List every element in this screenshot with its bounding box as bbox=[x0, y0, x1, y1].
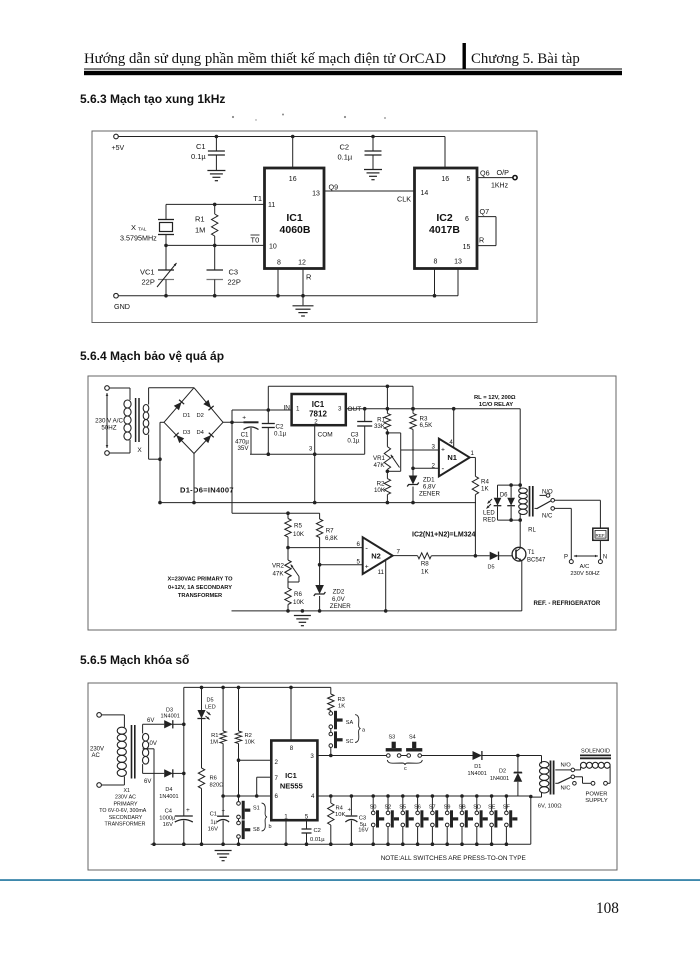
svg-text:3: 3 bbox=[338, 405, 342, 412]
svg-text:X: X bbox=[137, 447, 142, 454]
svg-text:+: + bbox=[242, 415, 246, 422]
svg-text:6: 6 bbox=[465, 216, 469, 223]
svg-text:S1: S1 bbox=[253, 806, 260, 812]
svg-text:15: 15 bbox=[463, 244, 471, 251]
svg-text:1N4001: 1N4001 bbox=[468, 771, 487, 777]
svg-text:N/O: N/O bbox=[561, 763, 572, 769]
svg-text:1M: 1M bbox=[210, 740, 218, 746]
svg-text:D2: D2 bbox=[197, 413, 204, 419]
svg-text:C1: C1 bbox=[196, 142, 206, 151]
svg-text:+5V: +5V bbox=[112, 145, 125, 152]
svg-text:VR2: VR2 bbox=[272, 563, 285, 570]
svg-text:16V: 16V bbox=[208, 826, 218, 832]
svg-text:R5: R5 bbox=[294, 523, 302, 530]
svg-text:REF.: REF. bbox=[596, 533, 606, 538]
svg-text:RL = 12V, 200Ω: RL = 12V, 200Ω bbox=[474, 395, 516, 401]
svg-text:-: - bbox=[442, 464, 445, 473]
svg-text:+: + bbox=[186, 807, 190, 814]
svg-text:D3: D3 bbox=[166, 707, 173, 713]
svg-text:R4: R4 bbox=[336, 806, 344, 812]
svg-text:16: 16 bbox=[289, 176, 297, 183]
svg-text:D4: D4 bbox=[197, 430, 205, 436]
svg-text:RED: RED bbox=[483, 518, 496, 524]
svg-text:3: 3 bbox=[310, 753, 314, 760]
svg-text:6: 6 bbox=[275, 793, 279, 800]
svg-text:D5: D5 bbox=[488, 565, 495, 571]
svg-text:5.6.3 Mạch tạo xung 1kHz: 5.6.3 Mạch tạo xung 1kHz bbox=[80, 92, 225, 106]
svg-text:6,8V: 6,8V bbox=[423, 484, 437, 491]
svg-text:S6: S6 bbox=[414, 804, 421, 810]
svg-text:0.01µ: 0.01µ bbox=[310, 837, 325, 843]
svg-text:16: 16 bbox=[441, 176, 449, 183]
svg-text:ZD2: ZD2 bbox=[333, 589, 345, 596]
svg-text:OUT: OUT bbox=[348, 406, 362, 413]
svg-text:4017B: 4017B bbox=[429, 224, 460, 236]
svg-text:N: N bbox=[603, 555, 607, 561]
svg-text:C3: C3 bbox=[359, 816, 366, 822]
svg-text:R4: R4 bbox=[481, 479, 489, 486]
svg-text:+: + bbox=[441, 447, 445, 454]
svg-text:C2: C2 bbox=[314, 828, 321, 834]
svg-text:-: - bbox=[365, 544, 368, 553]
svg-text:CLK: CLK bbox=[397, 195, 411, 204]
svg-text:Hướng dẫn sử dụng phần mềm thi: Hướng dẫn sử dụng phần mềm thiết kế mạch… bbox=[84, 51, 446, 67]
svg-text:PRIMARY: PRIMARY bbox=[113, 801, 138, 807]
svg-text:C4: C4 bbox=[165, 809, 173, 815]
svg-text:SB: SB bbox=[459, 804, 467, 810]
svg-text:TO 6V-0-6V, 300mA: TO 6V-0-6V, 300mA bbox=[99, 808, 147, 814]
svg-text:VC1: VC1 bbox=[140, 268, 155, 277]
svg-text:4: 4 bbox=[311, 793, 315, 800]
svg-text:R: R bbox=[306, 273, 312, 282]
svg-text:GND: GND bbox=[114, 302, 130, 311]
svg-text:A/C: A/C bbox=[580, 564, 590, 570]
svg-text:R1: R1 bbox=[195, 215, 205, 224]
svg-text:IC1: IC1 bbox=[312, 400, 325, 409]
svg-text:10K: 10K bbox=[293, 599, 305, 606]
svg-text:R: R bbox=[479, 236, 484, 245]
svg-text:N/C: N/C bbox=[542, 514, 553, 520]
svg-text:6,5K: 6,5K bbox=[420, 422, 434, 429]
svg-text:ZD1: ZD1 bbox=[423, 477, 435, 484]
svg-text:S7: S7 bbox=[429, 804, 436, 810]
svg-text:D5: D5 bbox=[207, 698, 214, 704]
svg-text:6V, 100Ω: 6V, 100Ω bbox=[538, 804, 562, 810]
svg-text:C2: C2 bbox=[276, 424, 284, 431]
svg-text:0+12V, 1A SECONDARY: 0+12V, 1A SECONDARY bbox=[168, 585, 232, 591]
svg-text:1K: 1K bbox=[421, 569, 429, 576]
svg-text:230V: 230V bbox=[90, 747, 104, 753]
svg-text:b: b bbox=[269, 824, 272, 830]
svg-text:POWER: POWER bbox=[586, 792, 608, 798]
svg-text:6V: 6V bbox=[147, 718, 154, 724]
svg-text:13: 13 bbox=[454, 259, 462, 266]
svg-text:2: 2 bbox=[314, 418, 318, 425]
svg-text:C1: C1 bbox=[210, 811, 217, 817]
svg-text:1: 1 bbox=[284, 813, 288, 820]
svg-text:LED: LED bbox=[483, 511, 495, 517]
svg-text:3: 3 bbox=[309, 446, 313, 453]
svg-text:T0: T0 bbox=[251, 236, 260, 245]
svg-text:IN: IN bbox=[284, 405, 291, 412]
svg-text:5: 5 bbox=[357, 559, 361, 566]
svg-text:1N4001: 1N4001 bbox=[161, 713, 180, 719]
svg-text:LED: LED bbox=[205, 705, 216, 711]
svg-text:D1: D1 bbox=[183, 413, 190, 419]
svg-text:IC1: IC1 bbox=[285, 771, 297, 780]
svg-text:47K: 47K bbox=[272, 571, 284, 578]
svg-text:S5: S5 bbox=[399, 804, 406, 810]
svg-text:0.1µ: 0.1µ bbox=[191, 152, 206, 161]
svg-text:1N4001: 1N4001 bbox=[159, 794, 178, 800]
svg-text:10: 10 bbox=[269, 244, 277, 251]
svg-text:10K: 10K bbox=[335, 812, 345, 818]
svg-text:3: 3 bbox=[432, 444, 436, 451]
svg-text:NE555: NE555 bbox=[280, 782, 303, 791]
svg-text:16V: 16V bbox=[163, 822, 173, 828]
svg-text:+: + bbox=[347, 808, 351, 814]
svg-text:7: 7 bbox=[275, 775, 279, 782]
svg-text:ZENER: ZENER bbox=[419, 491, 441, 498]
svg-text:S3: S3 bbox=[389, 735, 396, 741]
svg-text:22P: 22P bbox=[228, 278, 241, 287]
svg-text:13: 13 bbox=[312, 191, 320, 198]
svg-text:7812: 7812 bbox=[309, 410, 327, 419]
svg-text:11: 11 bbox=[268, 202, 275, 209]
svg-text:REF. - REFRIGERATOR: REF. - REFRIGERATOR bbox=[534, 600, 601, 607]
svg-text:TRANSFORMER: TRANSFORMER bbox=[178, 593, 222, 599]
svg-text:X1: X1 bbox=[123, 788, 130, 794]
svg-text:14: 14 bbox=[421, 190, 429, 197]
svg-text:D1-D6=IN4007: D1-D6=IN4007 bbox=[180, 486, 234, 495]
svg-text:N1: N1 bbox=[447, 453, 457, 462]
svg-text:SF: SF bbox=[503, 804, 511, 810]
svg-text:47K: 47K bbox=[373, 462, 385, 469]
svg-text:1KHz: 1KHz bbox=[491, 183, 509, 190]
svg-text:Q9: Q9 bbox=[329, 183, 339, 192]
svg-text:5: 5 bbox=[467, 176, 471, 183]
svg-text:X: X bbox=[131, 223, 136, 232]
svg-text:5.6.5 Mạch khóa số: 5.6.5 Mạch khóa số bbox=[80, 653, 189, 667]
svg-text:S8: S8 bbox=[253, 827, 260, 833]
svg-text:Q6: Q6 bbox=[480, 169, 490, 178]
svg-text:S2: S2 bbox=[385, 804, 392, 810]
svg-text:Chương 5. Bài tàp: Chương 5. Bài tàp bbox=[471, 51, 580, 67]
svg-text:BC547: BC547 bbox=[527, 558, 546, 564]
svg-text:8: 8 bbox=[434, 259, 438, 266]
svg-text:D2: D2 bbox=[499, 769, 506, 775]
svg-text:33K: 33K bbox=[374, 423, 386, 430]
svg-text:1: 1 bbox=[296, 405, 300, 412]
svg-text:SC: SC bbox=[346, 739, 354, 745]
svg-text:108: 108 bbox=[596, 900, 619, 917]
svg-text:230 V A/C: 230 V A/C bbox=[95, 418, 123, 425]
svg-text:3.5795MHz: 3.5795MHz bbox=[120, 234, 157, 243]
svg-text:IC2(N1+N2)=LM324: IC2(N1+N2)=LM324 bbox=[412, 532, 476, 539]
svg-text:TRANSFORMER: TRANSFORMER bbox=[105, 822, 146, 828]
svg-text:O/P: O/P bbox=[497, 168, 510, 177]
svg-text:R6: R6 bbox=[294, 591, 302, 598]
svg-text:1000µ: 1000µ bbox=[159, 816, 176, 822]
svg-text:1K: 1K bbox=[481, 486, 489, 493]
svg-text:4060B: 4060B bbox=[280, 224, 311, 236]
svg-text:TAL: TAL bbox=[138, 227, 147, 233]
svg-text:0.1µ: 0.1µ bbox=[338, 153, 353, 162]
svg-text:NOTE:ALL SWITCHES ARE PRESS-TO: NOTE:ALL SWITCHES ARE PRESS-TO-ON TYPE bbox=[381, 855, 526, 862]
svg-text:6,8K: 6,8K bbox=[325, 535, 339, 542]
svg-text:0V: 0V bbox=[150, 741, 157, 747]
svg-text:R6: R6 bbox=[210, 776, 217, 782]
svg-text:SECONDARY: SECONDARY bbox=[109, 815, 143, 821]
svg-text:230V 50HZ: 230V 50HZ bbox=[570, 571, 600, 577]
svg-text:1µ: 1µ bbox=[210, 820, 217, 826]
svg-text:C3: C3 bbox=[229, 268, 239, 277]
svg-text:S0: S0 bbox=[370, 804, 377, 810]
svg-text:7: 7 bbox=[397, 549, 401, 556]
svg-text:1: 1 bbox=[471, 450, 475, 457]
svg-text:10K: 10K bbox=[374, 487, 386, 494]
svg-text:D4: D4 bbox=[165, 787, 172, 793]
svg-text:C2: C2 bbox=[340, 143, 350, 152]
svg-text:1K: 1K bbox=[338, 704, 345, 710]
svg-text:0.1µ: 0.1µ bbox=[347, 438, 360, 445]
svg-text:a: a bbox=[362, 728, 366, 734]
svg-text:R7: R7 bbox=[326, 528, 334, 535]
svg-text:SUPPLY: SUPPLY bbox=[585, 798, 608, 804]
svg-text:IC2: IC2 bbox=[436, 212, 453, 224]
svg-text:SE: SE bbox=[488, 804, 496, 810]
svg-text:6V: 6V bbox=[144, 779, 151, 785]
svg-text:12: 12 bbox=[298, 260, 306, 267]
svg-text:SD: SD bbox=[473, 804, 481, 810]
svg-text:P: P bbox=[564, 555, 568, 561]
svg-text:50HZ: 50HZ bbox=[101, 425, 116, 432]
svg-text:COM: COM bbox=[318, 432, 333, 439]
svg-text:S9: S9 bbox=[444, 804, 451, 810]
svg-text:RL: RL bbox=[528, 528, 536, 534]
svg-text:C1: C1 bbox=[241, 432, 249, 439]
svg-text:ZENER: ZENER bbox=[330, 603, 352, 610]
svg-text:820Ω: 820Ω bbox=[210, 783, 225, 789]
svg-text:1M: 1M bbox=[195, 226, 205, 235]
svg-text:c: c bbox=[404, 766, 407, 772]
svg-text:IC1: IC1 bbox=[286, 212, 303, 224]
svg-text:35V: 35V bbox=[237, 445, 249, 452]
svg-text:T1: T1 bbox=[253, 194, 262, 203]
svg-text:1N4001: 1N4001 bbox=[490, 776, 509, 782]
svg-text:1C/O RELAY: 1C/O RELAY bbox=[479, 402, 513, 408]
svg-text:N2: N2 bbox=[371, 551, 381, 560]
svg-text:11: 11 bbox=[378, 569, 385, 576]
svg-text:0.1µ: 0.1µ bbox=[274, 431, 287, 438]
svg-text:2: 2 bbox=[275, 759, 279, 766]
svg-text:R2: R2 bbox=[245, 733, 252, 739]
svg-text:8: 8 bbox=[277, 260, 281, 267]
svg-text:AC: AC bbox=[92, 753, 101, 759]
svg-text:5.6.4 Mạch bảo vệ quá áp: 5.6.4 Mạch bảo vệ quá áp bbox=[80, 349, 224, 363]
svg-text:S4: S4 bbox=[409, 735, 416, 741]
svg-text:SA: SA bbox=[346, 720, 354, 726]
svg-text:16V: 16V bbox=[358, 828, 368, 834]
svg-text:D1: D1 bbox=[474, 764, 481, 770]
svg-text:Q7: Q7 bbox=[480, 207, 490, 216]
svg-text:6: 6 bbox=[357, 541, 361, 548]
svg-text:10K: 10K bbox=[293, 531, 305, 538]
svg-text:N/C: N/C bbox=[561, 786, 571, 792]
svg-text:X=230VAC PRIMARY TO: X=230VAC PRIMARY TO bbox=[167, 577, 233, 583]
svg-text:6,0V: 6,0V bbox=[332, 596, 346, 603]
svg-text:10K: 10K bbox=[245, 740, 255, 746]
svg-text:D6: D6 bbox=[500, 493, 508, 499]
svg-text:4: 4 bbox=[449, 439, 453, 446]
svg-text:8: 8 bbox=[290, 745, 294, 752]
svg-text:22P: 22P bbox=[142, 278, 155, 287]
svg-text:R1: R1 bbox=[211, 733, 218, 739]
svg-text:+: + bbox=[365, 564, 369, 571]
svg-text:T1: T1 bbox=[528, 550, 536, 556]
svg-text:R3: R3 bbox=[338, 697, 345, 703]
svg-text:D3: D3 bbox=[183, 430, 190, 436]
svg-text:5: 5 bbox=[305, 813, 309, 820]
svg-text:SOLENOID: SOLENOID bbox=[581, 748, 610, 754]
svg-text:230V AC: 230V AC bbox=[115, 795, 136, 801]
svg-text:R8: R8 bbox=[421, 561, 429, 568]
svg-text:VR1: VR1 bbox=[373, 455, 386, 462]
svg-text:+: + bbox=[222, 809, 226, 815]
